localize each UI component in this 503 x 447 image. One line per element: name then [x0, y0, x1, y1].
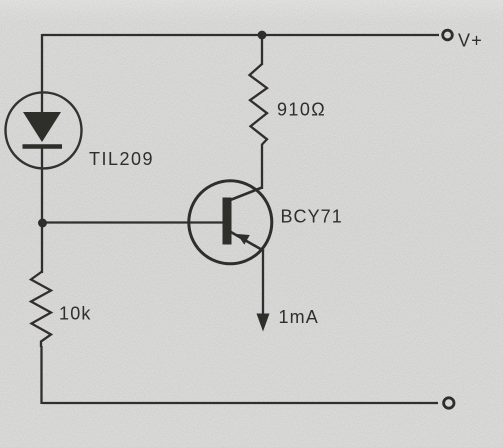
LED D1 anode triangle — [23, 112, 61, 142]
wire: 910R to transistor collector — [261, 144, 263, 189]
svg-text:BCY71: BCY71 — [281, 207, 343, 227]
resistor R2 10k zigzag — [31, 272, 51, 348]
svg-text:TIL209: TIL209 — [89, 149, 154, 169]
wire: bottom rail — [42, 402, 438, 404]
wire: transistor emitter down to 1mA arrow — [262, 250, 264, 316]
transistor Q1 BCY71 circle — [189, 181, 272, 264]
svg-text:910Ω: 910Ω — [277, 100, 326, 120]
LED D1 TIL209 circle — [6, 92, 82, 168]
transistor Q1 collector lead — [229, 188, 262, 201]
1mA output arrow head — [257, 314, 270, 332]
terminal bottom right — [444, 398, 454, 408]
svg-text:V+: V+ — [458, 31, 483, 51]
LED D1 cathode bar — [23, 144, 63, 149]
svg-text:10k: 10k — [59, 304, 92, 324]
node: top junction dot — [258, 31, 267, 40]
wire: 10k bottom to bottom rail — [40, 346, 42, 404]
node A: base node junction dot — [38, 219, 47, 228]
resistor R1 910R zigzag — [250, 64, 268, 145]
wire: LED cathode to base node — [41, 147, 43, 273]
wire: base wire from node A to transistor — [42, 221, 224, 223]
transistor Q1 emitter arrow (PNP, pointing to base) — [237, 234, 250, 245]
transistor Q1 emitter lead — [230, 232, 264, 252]
transistor Q1 base bar — [223, 198, 232, 245]
wire: top rail V+ — [42, 34, 439, 36]
terminal V+ — [443, 30, 453, 40]
wire: middle vertical from top junction to 910R — [261, 35, 263, 65]
wire: left vertical (top rail to LED) — [41, 34, 43, 112]
svg-text:1mA: 1mA — [279, 307, 319, 327]
